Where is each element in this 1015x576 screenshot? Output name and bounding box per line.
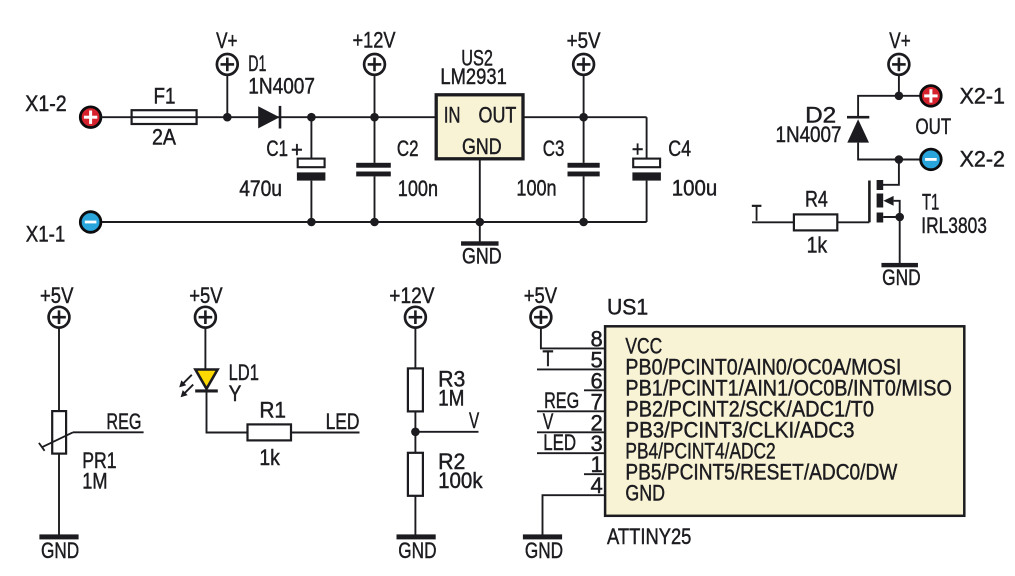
wire T to R4: [752, 221, 794, 223]
svg-text:C3: C3: [543, 136, 565, 161]
node X2-2 label: [960, 147, 1005, 172]
pin 2 of US1 (net V): [537, 409, 605, 435]
wire D2 to X2-2 node: [858, 143, 899, 160]
wire R2 to ground: [414, 496, 416, 535]
wire C2 branch bottom: [374, 176, 376, 222]
wire PR1 wiper to REG: [73, 431, 144, 433]
pin 6 of US1: [584, 368, 605, 393]
svg-text:GND: GND: [41, 538, 79, 563]
net OUT label: [916, 114, 952, 139]
pin 5 of US1 (net T): [537, 346, 605, 372]
diode D1 1N4007: [248, 51, 315, 129]
svg-text:X2-2: X2-2: [960, 147, 1005, 172]
svg-text:REG: REG: [106, 409, 141, 434]
wire bottom rail: [100, 221, 646, 223]
svg-text:OUT: OUT: [916, 114, 952, 139]
junction C2/bottom rail: [370, 218, 379, 227]
power terminal +5V (PR1): [49, 307, 70, 328]
wire R4 to gate: [837, 221, 869, 223]
svg-text:C4: C4: [668, 136, 691, 161]
svg-text:GND: GND: [525, 538, 563, 563]
power +12V label: [389, 283, 434, 308]
svg-text:+: +: [291, 137, 303, 162]
power +5V label (US1): [524, 283, 558, 308]
svg-text:Y: Y: [229, 381, 242, 406]
resistor R3 1M: [408, 367, 465, 412]
wire X2-1 node to terminal: [899, 95, 921, 97]
svg-text:1M: 1M: [82, 468, 107, 493]
junction +5V/rail: [579, 113, 588, 122]
wire divider to V label: [415, 431, 478, 433]
junction +12V/rail: [370, 113, 379, 122]
wire +5V to rail: [583, 75, 585, 117]
svg-text:+5V: +5V: [567, 28, 601, 53]
svg-text:1N4007: 1N4007: [776, 122, 842, 147]
capacitor C2 100n: [356, 136, 438, 201]
ground symbol under US1: [523, 534, 563, 563]
terminal X1-1: [80, 212, 101, 233]
resistor R2 100k: [408, 449, 484, 496]
svg-text:+: +: [632, 136, 644, 161]
svg-text:+5V: +5V: [524, 283, 558, 308]
svg-text:GND: GND: [625, 481, 665, 506]
junction US2 GND/bottom rail: [476, 218, 485, 227]
svg-text:GND: GND: [462, 244, 502, 269]
wire top rail from X1-2 to US2 IN: [101, 116, 437, 118]
wire US2 GND down: [479, 159, 481, 222]
svg-text:X2-1: X2-1: [960, 83, 1005, 108]
svg-text:V+: V+: [216, 28, 237, 53]
svg-text:PB5/PCINT5/RESET/ADC0/DW: PB5/PCINT5/RESET/ADC0/DW: [625, 460, 897, 485]
node X2-1 label: [960, 83, 1005, 108]
svg-text:C2: C2: [397, 136, 419, 161]
wire C3 branch bottom: [583, 176, 585, 222]
junction V+/rail: [223, 113, 232, 122]
svg-text:+12V: +12V: [389, 283, 434, 308]
power terminal +5V (LD1): [195, 307, 216, 328]
wire R1 to LED label: [291, 432, 360, 434]
power terminal V+ (top-left): [217, 54, 238, 75]
wire T1 drain: [883, 160, 899, 185]
ground symbol under R2: [397, 534, 437, 563]
wire X2-1 node to D2 corner: [858, 96, 899, 118]
svg-text:+5V: +5V: [40, 283, 74, 308]
node X1-2 label: [25, 91, 66, 116]
junction D1/C1: [307, 113, 316, 122]
net REG label: [106, 409, 141, 434]
wire +5V to pin 8: [541, 328, 605, 349]
junction C1/bottom rail: [307, 218, 316, 227]
resistor R1 1k: [248, 398, 292, 470]
net T label: [752, 200, 762, 225]
power terminal +12V (divider): [405, 307, 426, 328]
capacitor C4 100u: [632, 136, 718, 201]
power +5V label (PR1): [40, 283, 74, 308]
svg-text:V+: V+: [889, 28, 910, 53]
svg-text:LED: LED: [326, 409, 360, 434]
svg-text:R1: R1: [259, 398, 286, 423]
potentiometer PR1 1M: [39, 411, 117, 493]
capacitor C3 100n: [516, 136, 599, 201]
svg-text:IRL3803: IRL3803: [921, 213, 987, 238]
svg-text:X1-1: X1-1: [26, 221, 66, 246]
svg-text:R4: R4: [805, 187, 828, 212]
wire LD1 to R1: [207, 393, 248, 433]
svg-text:LED: LED: [543, 430, 576, 455]
wire +12V to top rail: [374, 75, 376, 117]
fuse F1: [132, 83, 197, 149]
svg-text:LM2931: LM2931: [440, 64, 506, 89]
junction X2-1 node: [895, 92, 904, 101]
pin 3 of US1 (net LED): [537, 430, 605, 456]
wire C1 branch bottom: [310, 181, 312, 222]
svg-text:X1-2: X1-2: [25, 91, 66, 116]
wire source to ground: [899, 217, 901, 263]
wire +12V to R3: [414, 328, 416, 369]
svg-text:V: V: [469, 408, 479, 433]
wire T1 source: [883, 201, 900, 217]
svg-text:GND: GND: [398, 538, 436, 563]
wire +5V to LD1: [204, 328, 206, 370]
junction divider node V: [411, 428, 420, 437]
svg-text:100n: 100n: [516, 176, 556, 201]
svg-text:1M: 1M: [438, 386, 464, 411]
ground symbol under US2: [461, 222, 502, 269]
terminal X2-2: [921, 149, 942, 170]
transistor T1 IRL3803: [869, 180, 986, 238]
svg-text:1N4007: 1N4007: [248, 73, 315, 98]
wire +5V to PR1: [58, 328, 60, 412]
wire C1 branch top: [310, 117, 312, 158]
ground symbol under T1: [881, 263, 920, 290]
net LED label: [326, 409, 360, 434]
diode D2 1N4007: [776, 102, 870, 147]
svg-text:100k: 100k: [438, 468, 483, 493]
svg-text:C1: C1: [266, 136, 288, 161]
wire PR1 to ground: [58, 454, 60, 535]
power V+ label (right): [889, 28, 910, 53]
terminal X2-1: [921, 86, 942, 107]
wire V+ down to X2-1 node: [898, 75, 900, 96]
power V+ label: [216, 28, 237, 53]
svg-text:F1: F1: [154, 83, 176, 108]
svg-text:ATTINY25: ATTINY25: [607, 524, 691, 549]
svg-text:IN: IN: [444, 102, 461, 127]
wire C4 branch: [646, 117, 648, 222]
wire R3 to R2: [414, 411, 416, 452]
wire C2 branch top: [374, 117, 376, 163]
pin 1 of US1: [584, 452, 605, 477]
LED LD1 Y: [179, 360, 259, 406]
wire top rail OUT side: [523, 116, 647, 118]
svg-text:2A: 2A: [152, 125, 176, 150]
svg-text:+5V: +5V: [189, 283, 223, 308]
power terminal V+ (right): [889, 54, 910, 75]
pin 4 of US1: [543, 473, 606, 535]
svg-text:1k: 1k: [259, 445, 280, 470]
wire C3 branch top: [583, 117, 585, 163]
svg-text:100n: 100n: [398, 176, 438, 201]
IC US1 ATTINY25: [605, 295, 964, 549]
svg-text:GND: GND: [462, 134, 502, 159]
svg-text:US1: US1: [607, 295, 648, 320]
wire V+ to top rail: [226, 75, 228, 117]
pin 7 of US1 (net REG): [537, 388, 605, 414]
wire X2-2 node to terminal: [899, 159, 921, 161]
capacitor C1 470u: [239, 136, 325, 201]
svg-text:T: T: [543, 346, 554, 371]
net V label: [469, 408, 479, 433]
svg-text:1k: 1k: [807, 233, 828, 258]
junction T1 source node: [895, 213, 904, 222]
svg-text:OUT: OUT: [479, 102, 517, 127]
power terminal +12V: [364, 54, 385, 75]
power terminal +5V (US1): [531, 307, 552, 328]
svg-text:100u: 100u: [672, 176, 718, 201]
junction C3/bottom rail: [579, 218, 588, 227]
regulator US2 LM2931: [436, 45, 523, 158]
svg-text:GND: GND: [882, 265, 921, 290]
svg-text:D1: D1: [248, 51, 266, 76]
power +12V label: [353, 28, 396, 53]
resistor R4 1k: [794, 187, 837, 258]
junction X2-2 node: [895, 155, 904, 164]
terminal X1-2: [80, 107, 101, 128]
svg-text:470u: 470u: [239, 176, 282, 201]
svg-text:+12V: +12V: [353, 28, 396, 53]
ground symbol under PR1: [39, 534, 79, 563]
power +5V label (top): [567, 28, 601, 53]
svg-text:T1: T1: [922, 189, 939, 214]
pin 8 of US1: [591, 326, 603, 351]
power +5V label (LD1): [189, 283, 223, 308]
power terminal +5V (top): [573, 54, 594, 75]
node X1-1 label: [26, 221, 66, 246]
